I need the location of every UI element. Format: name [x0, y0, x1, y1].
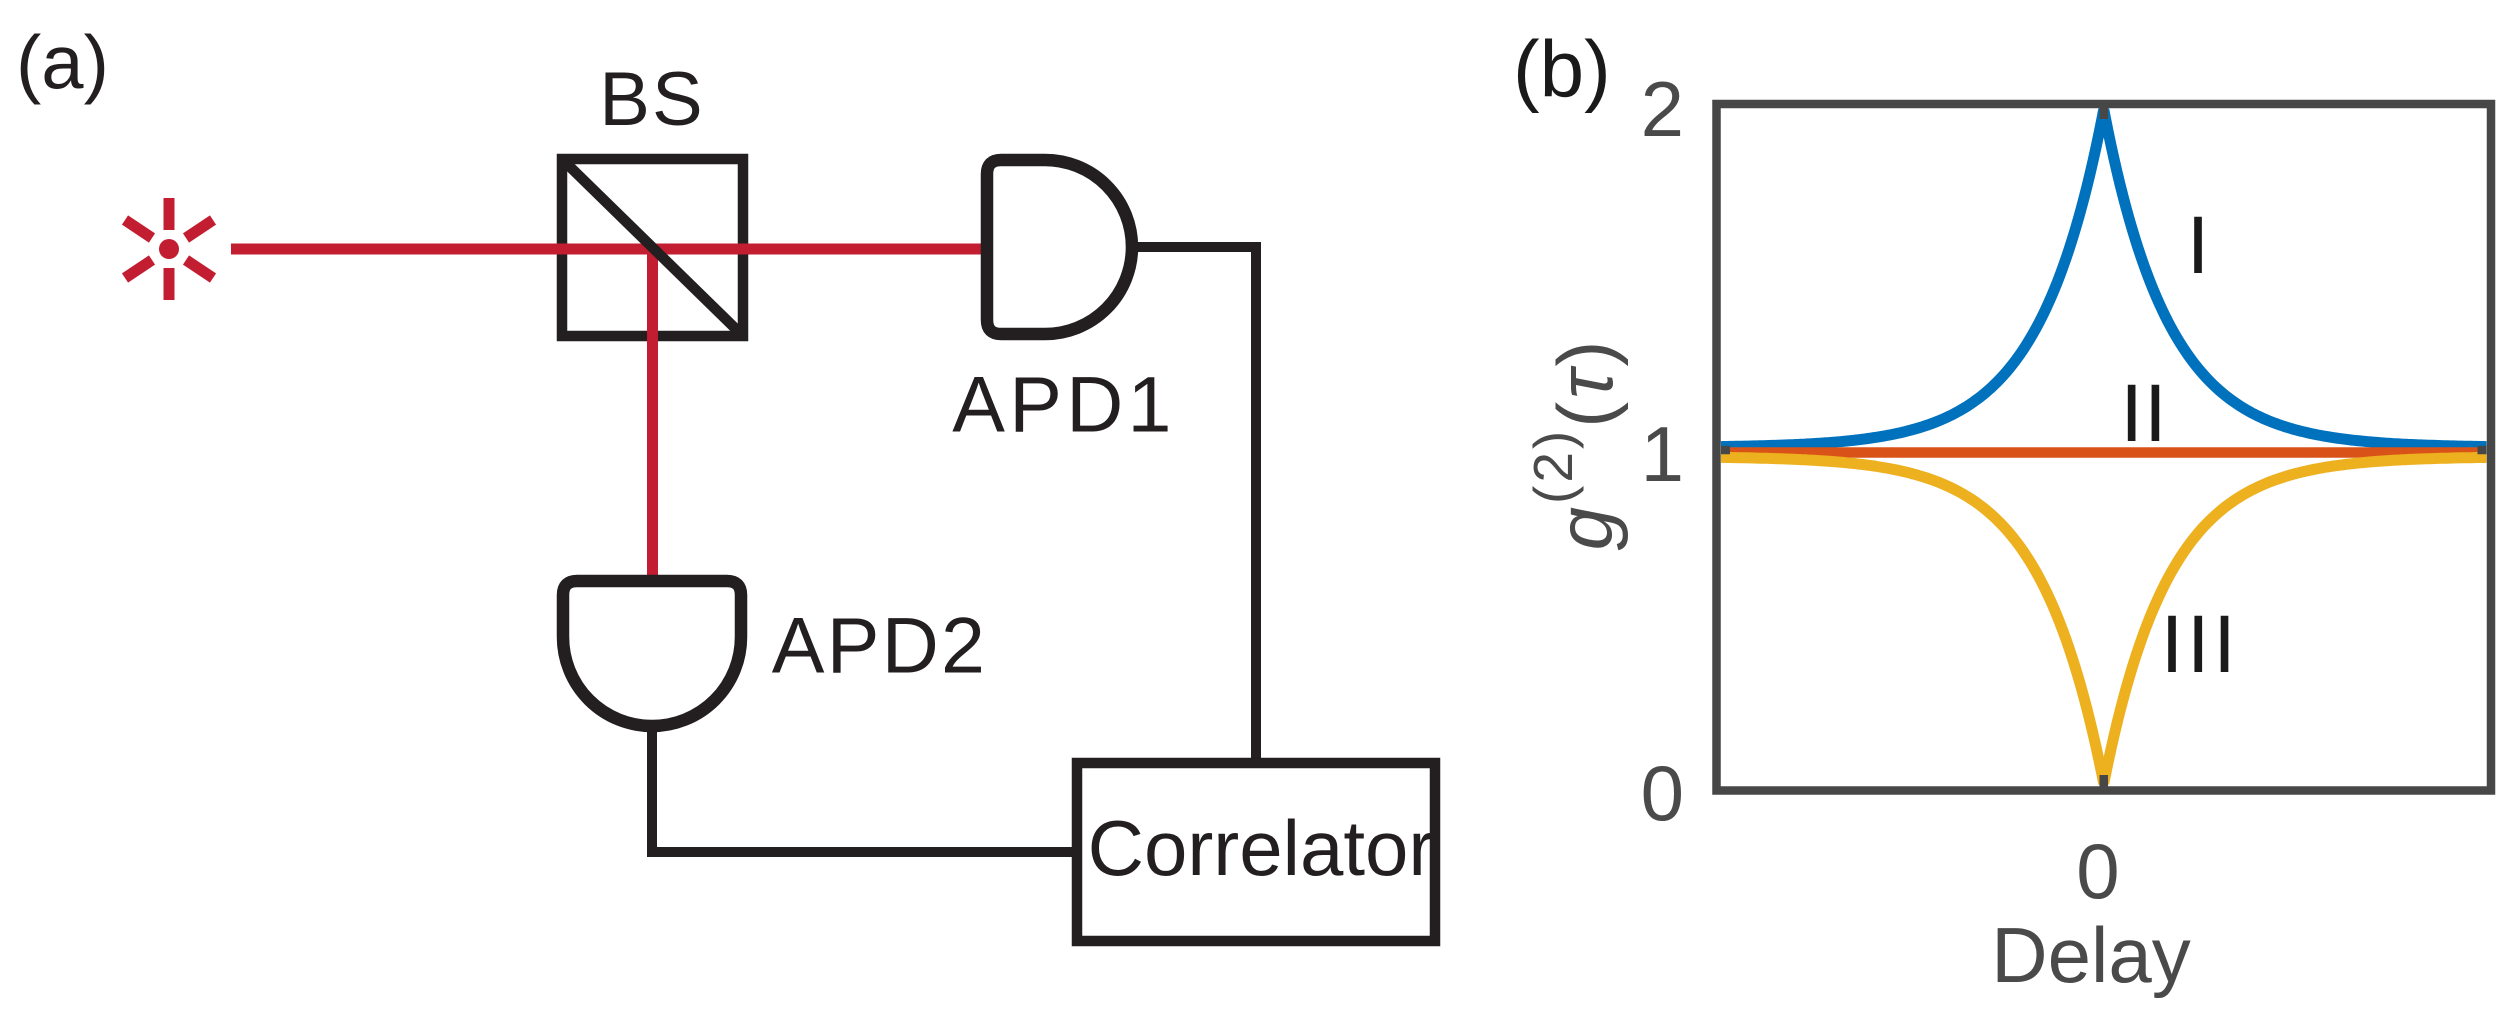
beam: source to BS to APD1 [231, 244, 987, 255]
svg-text:I: I [2187, 200, 2210, 291]
svg-text:1: 1 [1641, 410, 1684, 498]
svg-text:III: III [2161, 599, 2240, 690]
svg-text:Correlator: Correlator [1088, 804, 1435, 892]
svg-text:II: II [2120, 368, 2168, 459]
tick x=0 bottom [2100, 775, 2109, 787]
svg-text:2: 2 [1641, 65, 1684, 153]
svg-text:APD1: APD1 [952, 360, 1176, 449]
svg-text:(a): (a) [16, 21, 109, 106]
svg-text:BS: BS [599, 57, 704, 142]
curve II (orange, coherent light) [1721, 447, 2487, 458]
svg-text:APD2: APD2 [772, 601, 988, 690]
curve III (yellow, antibunched light) [1721, 457, 2487, 783]
wire APD1 to correlator [1130, 247, 1256, 763]
tick x=0 top [2100, 108, 2109, 119]
curve I (blue, bunched light) [1721, 110, 2487, 447]
tick y=1 right [2478, 446, 2487, 455]
beam splitter cube BS [562, 159, 743, 336]
correlator box [1077, 763, 1435, 941]
beam: BS down to APD2 [647, 252, 658, 578]
axes box panel b [1717, 104, 2492, 791]
tick y=1 left [1721, 446, 1730, 455]
light source (red star) [125, 198, 213, 300]
svg-text:g(2)(τ): g(2)(τ) [1522, 338, 1629, 551]
BS diagonal [564, 161, 741, 334]
detector APD1 [987, 160, 1132, 334]
svg-text:(b): (b) [1513, 25, 1611, 114]
detector APD2 [563, 581, 741, 726]
wire APD2 to correlator [652, 722, 1077, 852]
svg-text:Delay: Delay [1991, 911, 2190, 999]
svg-text:0: 0 [1641, 749, 1684, 837]
svg-text:0: 0 [2076, 827, 2119, 915]
